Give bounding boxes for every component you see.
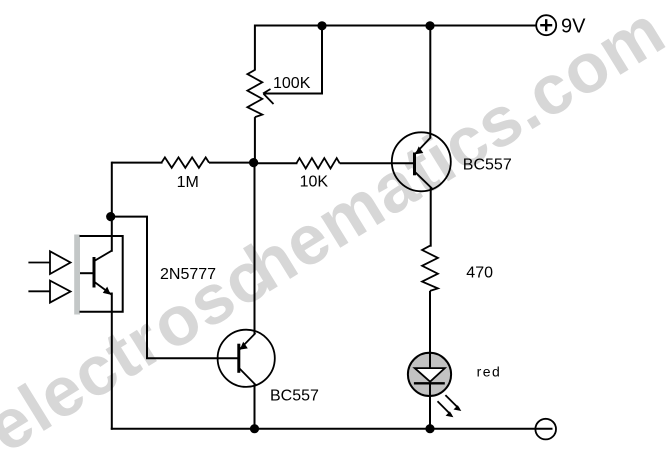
- svg-text:9V: 9V: [561, 16, 586, 38]
- wire top rail to R2 top: [254, 25, 256, 71]
- svg-text:10K: 10K: [300, 173, 329, 190]
- wire LED cathode to bottom rail: [429, 383, 431, 429]
- light input arrow 2: [28, 281, 70, 303]
- light input arrow 1: [28, 251, 70, 274]
- wire R4 bottom to LED anode: [429, 291, 431, 354]
- transistor Q3 BC557 upper: [392, 132, 451, 191]
- wire Q1 collector node to Q2 base: [111, 217, 239, 359]
- svg-text:BC557: BC557: [270, 388, 319, 405]
- svg-text:hematics.com: hematics.com: [232, 0, 670, 307]
- svg-text:1M: 1M: [177, 174, 199, 191]
- wiper arrow of R2: [263, 89, 274, 104]
- LED D1 red: [408, 353, 451, 396]
- svg-text:red: red: [477, 364, 502, 380]
- svg-text:electr: electr: [0, 300, 176, 453]
- wire Q1 collector node to R1 left: [112, 162, 163, 164]
- wire center node down to Q2 emitter: [254, 163, 256, 335]
- svg-text:2N5777: 2N5777: [160, 266, 216, 283]
- node Q2 collector junction on bottom rail: [250, 424, 259, 433]
- wire center node to R3 left: [254, 162, 298, 164]
- node Q1 collector junction: [106, 212, 115, 221]
- transistor Q2 BC557 lower: [218, 330, 275, 387]
- LED emission arrow 1: [445, 395, 461, 411]
- resistor R3 10K body: [296, 158, 339, 168]
- resistor R1 1M body: [162, 157, 210, 167]
- wire R1 right to center node: [209, 162, 254, 164]
- node wiper junction on top rail: [317, 21, 326, 30]
- potentiometer R2 100K body: [247, 70, 262, 117]
- battery positive terminal: [536, 15, 556, 35]
- battery negative terminal: [535, 419, 556, 440]
- wire Q2 collector to bottom rail: [254, 384, 256, 430]
- wire bottom ground rail: [111, 428, 553, 430]
- phototransistor Q1 2N5777: [74, 235, 123, 315]
- wire top rail down to Q3 emitter: [429, 26, 431, 139]
- node LED junction on bottom rail: [425, 424, 434, 433]
- wire R2 bottom to center node: [254, 117, 256, 163]
- wire wiper feed from top rail: [264, 25, 322, 94]
- wire R3 right to Q3 base: [340, 162, 415, 164]
- resistor R4 470 body: [422, 246, 438, 291]
- node Q3 emitter junction on top rail: [425, 21, 434, 30]
- wire R1 left down to Q1 collector: [111, 162, 113, 252]
- wire Q1 emitter down to bottom rail: [111, 293, 113, 430]
- LED emission arrow 2: [438, 401, 454, 417]
- wire top supply rail: [254, 25, 537, 27]
- svg-text:BC557: BC557: [463, 157, 512, 174]
- wire Q3 collector down to R4: [430, 188, 432, 247]
- svg-text:470: 470: [466, 265, 493, 282]
- node center junction R1 R2 R3 Q2: [249, 158, 258, 167]
- svg-text:100K: 100K: [273, 75, 311, 92]
